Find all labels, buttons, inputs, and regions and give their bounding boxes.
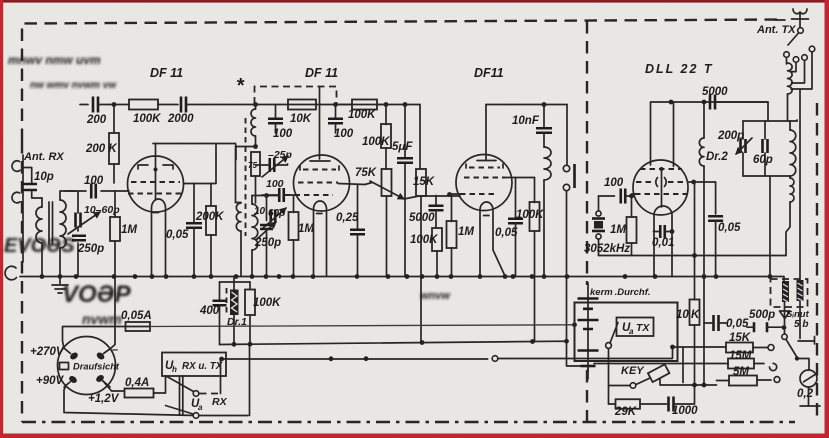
label 0,01 [652, 237, 674, 249]
tube V2 envelope [294, 155, 350, 211]
label Dr.2 [706, 151, 728, 163]
antenna terminal hook upper [12, 161, 20, 172]
capacitor 100 b plates [328, 105, 343, 134]
ant TX switch contact A [798, 28, 804, 34]
contact Ua upper [193, 391, 199, 397]
svg-text:0,05: 0,05 [718, 222, 741, 234]
line C [222, 348, 673, 362]
wire V1 anode to top [153, 144, 236, 160]
label DF 11 first tube [150, 66, 183, 80]
label DF 11 second tube [305, 66, 338, 80]
feedthrough capacitor stack [578, 283, 599, 372]
tank cap 60p [763, 121, 768, 176]
label 0,05A [121, 310, 152, 322]
antenna lower hook [5, 266, 16, 280]
svg-text:DF 11: DF 11 [305, 66, 338, 80]
wire socket to fuse 0,05A [63, 327, 126, 349]
ant TX contact B [784, 52, 790, 58]
label DF11 third tube [474, 66, 504, 80]
resistor 15K [416, 169, 426, 342]
tank top wire [743, 120, 797, 122]
label 10K [290, 113, 312, 125]
svg-text:5000: 5000 [702, 86, 728, 98]
node bar dots 2 [702, 383, 707, 388]
wire trimmers [77, 191, 79, 277]
svg-text:0,01: 0,01 [652, 237, 674, 249]
socket pin bottom-left [64, 375, 78, 387]
trimmer cap 10-60p plates [76, 213, 81, 228]
svg-text:0,25: 0,25 [336, 212, 359, 224]
svg-text:0,2: 0,2 [797, 388, 814, 400]
label 0,4A [125, 377, 149, 389]
wire 15M lead [594, 363, 728, 365]
capacitor 100 grid1 plates [65, 184, 129, 199]
resistor 29K [609, 399, 641, 409]
wire TX contact down [608, 349, 610, 386]
wire primary top [41, 198, 43, 277]
ground bus wire [20, 276, 770, 278]
contact 15M [770, 363, 777, 370]
svg-text:100: 100 [273, 128, 293, 140]
wire top row corner down [419, 105, 421, 170]
tube V1 top cap wire [155, 144, 157, 168]
wire key left [609, 386, 631, 405]
svg-text:400: 400 [199, 305, 220, 317]
box Ua TX [617, 318, 654, 337]
tube V4 grid1 dashes [640, 167, 682, 171]
phone jack sleeve bar [573, 164, 576, 188]
ant TX tap wires [787, 52, 813, 89]
tube V3 grid2 dashes [464, 177, 505, 179]
svg-text:100K: 100K [362, 136, 390, 148]
wire secondary to grid cap [252, 195, 279, 197]
wire 15K lead [673, 346, 727, 348]
dashed box around 10K [255, 87, 337, 105]
wire Uh verticals [180, 376, 183, 415]
wire 5M right [757, 379, 771, 381]
choke Dr.2 [699, 102, 704, 385]
meter circle [800, 370, 817, 387]
capacitor 1000 [669, 397, 674, 412]
label 1000 [672, 405, 698, 417]
trimmer 10-60p arrow [68, 212, 100, 234]
svg-text:5μF: 5μF [392, 141, 413, 153]
box Uh RX u. TX [162, 353, 226, 377]
label +1,2V [88, 393, 120, 405]
wire bar 5a down arrow [780, 302, 791, 328]
tube V2 filament minus [317, 213, 323, 215]
label 5000 coupling [409, 212, 435, 224]
resistor 1M grid3 [447, 195, 457, 277]
label 100K stage3 [516, 209, 544, 221]
label Draufsicht [73, 362, 120, 372]
label 0,2 [797, 388, 814, 400]
tube V1 grid3 dashes [128, 193, 183, 195]
choke Dr.1 core dash [226, 288, 228, 316]
connector bar 5b [797, 280, 804, 301]
svg-text:15K: 15K [729, 332, 751, 344]
svg-text:10K: 10K [290, 113, 312, 125]
tube V1 envelope [128, 156, 184, 212]
capacitor 10p plates [23, 184, 38, 190]
resistor 100K stage1 [129, 100, 158, 110]
svg-text:1M: 1M [610, 224, 626, 236]
crystal 3052kHz [592, 196, 605, 256]
capacitor 0,05 stage3 [508, 178, 523, 277]
wire Dr1 bracket [220, 277, 251, 283]
wire minus pin up [111, 277, 116, 349]
coupling coil ant [786, 178, 794, 256]
input transformer core [49, 202, 53, 244]
node main HT dot [112, 102, 117, 107]
resistor 1M xtal [627, 196, 637, 256]
tube V1 filament minus [153, 212, 159, 214]
wire fuse 0,4A right [154, 376, 166, 393]
key lower contact bar [660, 379, 717, 386]
trimmer -25p arrow [262, 156, 288, 177]
tube V4 filament dome [654, 206, 672, 230]
wire coil3 to bus [543, 180, 545, 277]
tube V4 grid axis [661, 169, 663, 207]
node 15K feed [670, 345, 675, 350]
contact Ua lower [193, 413, 199, 419]
svg-text:RX: RX [212, 396, 228, 408]
tank bottom wire [743, 176, 790, 277]
socket pin top-left [65, 349, 80, 361]
tube V1 anode bracket [138, 165, 173, 169]
svg-text:0,05: 0,05 [726, 318, 749, 330]
label 5uF [392, 141, 413, 153]
socket key notch [60, 363, 69, 370]
label 100 grid1 [84, 175, 104, 187]
svg-text:Ant. RX: Ant. RX [23, 151, 64, 163]
capacitor 400 [213, 282, 227, 345]
label 100K grid3 [410, 234, 438, 246]
wire V1 grid chain right [184, 144, 217, 184]
wire V2 g3 to cap 100c [284, 194, 285, 196]
resistor 10K [288, 100, 316, 110]
contact 5M [774, 377, 780, 383]
svg-text:a: a [198, 403, 203, 412]
resistor 5M [729, 376, 757, 386]
selector arm [786, 339, 799, 360]
wire x250 drop [249, 344, 251, 415]
svg-text:5000: 5000 [409, 212, 435, 224]
switch TX arm [610, 323, 618, 344]
wire top row mid [256, 104, 336, 106]
capacitor 0,05 dll [708, 216, 723, 276]
capacitor 5000 coupling [429, 196, 444, 229]
phone jack bottom contact [563, 184, 569, 341]
svg-text:10: 10 [254, 206, 266, 217]
capacitor 0,01 [654, 225, 675, 238]
svg-text:200p: 200p [717, 130, 744, 142]
connector dashed box [771, 279, 808, 307]
label 15M [729, 350, 752, 362]
wire antenna vertical [23, 155, 32, 262]
variable cap 250p b [260, 196, 273, 277]
tube V3 grid1 dashes [466, 164, 503, 168]
svg-text:5M: 5M [733, 366, 749, 378]
node TX dot1 [669, 100, 707, 105]
svg-text:1M: 1M [458, 226, 474, 238]
trimmer 60p plates [271, 210, 276, 223]
resistor 1M stage2 [289, 196, 299, 277]
label 200 [86, 114, 107, 126]
svg-text:500p: 500p [749, 309, 775, 321]
wire sel to meter [797, 359, 809, 371]
ground symbol below bus [52, 277, 68, 294]
label -25p [268, 149, 293, 161]
label 5M [733, 366, 749, 378]
wire v 683 [682, 347, 684, 383]
trimmer -25p plates [270, 158, 275, 172]
label Sinut 5b [786, 309, 810, 330]
wire top row left [80, 104, 88, 106]
label 29K [614, 406, 637, 418]
tube V1 filament dome [152, 199, 166, 276]
ant TX contact E [809, 46, 815, 52]
transformer T2 primary coil [236, 203, 242, 277]
capacitor 2000 plates [181, 97, 186, 113]
label KEY [621, 365, 645, 377]
node 10K right [333, 102, 338, 107]
capacitor 0,05 tx [704, 315, 727, 331]
trimmer 250p b arrow [256, 222, 276, 240]
wire 100K to 2000 [158, 104, 178, 106]
contact 15K [768, 345, 774, 351]
tube V3 grid3 dashes [460, 193, 497, 195]
wire 5M lead [717, 380, 730, 382]
potentiometer 75K arrow [370, 181, 404, 199]
resistor 15M [728, 359, 754, 369]
label 200 K [85, 143, 117, 155]
oscillator coupling coil [251, 105, 256, 147]
resistor 75 [248, 152, 260, 203]
label 5000 tx [702, 86, 728, 98]
wire V3 anode top row [486, 104, 567, 106]
tube V2 grid1 dashes [300, 166, 339, 170]
tube V4 filament legs [654, 230, 672, 277]
label minus pin [112, 344, 118, 356]
svg-text:2000: 2000 [167, 113, 194, 125]
label 75K [355, 167, 377, 179]
transformer T2 core dashes [245, 118, 247, 236]
input transformer primary coil [36, 207, 42, 243]
label 10nF [512, 115, 540, 127]
label DLL 22 T [645, 62, 714, 76]
resistor 15K tx [726, 343, 753, 353]
svg-text:29K: 29K [614, 406, 637, 418]
wire bar 5b up [799, 90, 801, 280]
node 10nF top [542, 102, 547, 107]
label 1M xtal [610, 224, 626, 236]
svg-text:10nF: 10nF [512, 115, 540, 127]
svg-text:+270V: +270V [30, 346, 65, 358]
svg-text:nw wmv nvwm vw: nw wmv nvwm vw [30, 80, 117, 91]
label 0,25 [336, 212, 359, 224]
wire Uh box to Ua contact [166, 376, 194, 392]
svg-text:+90V: +90V [36, 375, 65, 387]
dashed border right edge [816, 103, 818, 421]
svg-text:15K: 15K [413, 176, 435, 188]
capacitor 100 a plates [268, 105, 283, 134]
svg-text:100: 100 [266, 178, 284, 190]
label 100 xtal [604, 177, 624, 189]
svg-text:Dr.2: Dr.2 [706, 151, 728, 163]
switch TX contact [606, 343, 612, 349]
socket pin bottom-right [95, 374, 110, 387]
tube V4 envelope [633, 160, 688, 215]
svg-text:+1,2V: +1,2V [88, 393, 120, 405]
label 3052kHz [584, 243, 630, 255]
label 0,05 tx [726, 318, 749, 330]
wire xtal bottom rail [599, 255, 787, 257]
svg-text:200: 200 [86, 114, 107, 126]
variable cap 250p plates [72, 236, 86, 241]
wire socket bottom loop [64, 385, 248, 416]
resistor 100K anode2 horizontal [337, 100, 387, 110]
wire 1000 right [674, 386, 695, 405]
wire 200 to 100K [98, 104, 129, 106]
label 15K [413, 176, 435, 188]
big relay box [575, 303, 678, 362]
node osc bottom [253, 144, 258, 149]
svg-text:100: 100 [334, 128, 354, 140]
label 100K top row [133, 113, 161, 125]
wire 15M right [754, 363, 764, 365]
svg-text:0,05: 0,05 [166, 229, 189, 241]
wire V2 g2 right [338, 183, 372, 185]
tank variable cap 200p [736, 121, 752, 176]
label kerm Durchf [590, 287, 651, 298]
svg-text:*: * [236, 75, 245, 97]
label Dr.1 [227, 316, 247, 328]
svg-text:TX: TX [636, 322, 650, 334]
label 1M grid3 [458, 226, 474, 238]
svg-text:1000: 1000 [672, 405, 698, 417]
key lever [636, 364, 669, 384]
svg-text:100: 100 [84, 175, 104, 187]
capacitor 5uF [397, 105, 413, 277]
wire 2000 to osc section [186, 104, 256, 106]
resistor 10 K tx [690, 182, 700, 385]
node bar dots [692, 383, 697, 388]
node 100K vert top [384, 102, 389, 107]
wire 15K right [753, 347, 767, 349]
label Ant. TX [756, 24, 796, 36]
wire 10p to primary [32, 190, 42, 198]
wire -25p [256, 164, 288, 165]
bleed-through ghost text [4, 53, 451, 327]
svg-text:Ant. TX: Ant. TX [756, 24, 796, 36]
label 60p [753, 154, 773, 166]
capacitor 0,05 stage1 [186, 184, 202, 277]
tube V2 anode wire [310, 87, 330, 162]
svg-text:200K: 200K [195, 211, 224, 223]
label 100 a [273, 128, 293, 140]
node DLL grid left [629, 194, 634, 199]
label 100K vertical [362, 136, 390, 148]
label 10 K tx [676, 309, 700, 321]
line A heater [150, 322, 577, 327]
feedthrough bottom tee [581, 366, 596, 379]
wire V4 grid3 left [632, 194, 636, 196]
potentiometer 75K box [382, 169, 392, 277]
label 100K dr1 [253, 297, 281, 309]
ant TX contact D [802, 55, 808, 61]
label +90V [36, 375, 65, 387]
ant TX coil [788, 63, 793, 121]
label 100 c [266, 178, 284, 190]
svg-text:60p: 60p [268, 208, 285, 219]
label 10-60p [84, 204, 120, 216]
line B [220, 341, 581, 366]
label 200p [717, 130, 744, 142]
wire 29K to 1000 [640, 403, 667, 405]
wire meter down [800, 387, 820, 406]
svg-text:DLL 22 T: DLL 22 T [645, 62, 714, 76]
svg-text:75K: 75K [355, 167, 377, 179]
label 10p [34, 171, 54, 183]
line C dots [219, 356, 368, 361]
resistor 100K grid3 [432, 228, 442, 277]
label 200K anode [195, 211, 224, 223]
wire coupling top [796, 120, 798, 121]
label 500p [749, 309, 775, 321]
socket pin top-right [95, 349, 110, 361]
label 100 b [334, 128, 354, 140]
tube V3 envelope [456, 155, 512, 211]
tube V4 grid2 dashes [636, 178, 688, 187]
svg-text:VOƏP: VOƏP [62, 281, 132, 308]
wire bus to bar 5a [770, 277, 784, 282]
node 500p junction [782, 325, 787, 330]
svg-text:100K: 100K [348, 109, 376, 121]
oscillator coil stage3 [544, 147, 551, 180]
svg-text:100K: 100K [253, 297, 281, 309]
antenna terminal hook lower [12, 192, 20, 203]
tube V4 grid3 dashes [635, 193, 687, 195]
tube V1 grid wire [155, 170, 157, 200]
svg-text:kerm .Durchf.: kerm .Durchf. [590, 287, 651, 298]
capacitor 100 xtal [599, 189, 632, 204]
switch blade Ua [166, 406, 194, 415]
label 15K tx [729, 332, 751, 344]
label 2000 [167, 113, 194, 125]
transformer T2 secondary coil [252, 196, 258, 277]
line B dots [232, 339, 569, 347]
asterisk mark [236, 75, 245, 97]
capacitor 100 c plates [262, 188, 294, 202]
svg-text:0,05A: 0,05A [121, 310, 152, 322]
label 0,05 stage1 [166, 229, 189, 241]
choke Dr.1 body [230, 282, 239, 344]
node secondary top [264, 193, 269, 198]
label 250p [77, 243, 104, 255]
wire 5000 right [715, 102, 768, 121]
capacitor 0,25 [350, 185, 365, 277]
tube V1 grid2 dashes [131, 168, 180, 183]
contact sel circle [782, 330, 787, 339]
tube socket circle [58, 337, 116, 395]
svg-text:KEY: KEY [621, 365, 645, 377]
input transformer secondary coil [60, 200, 66, 248]
label 0,05 dll [718, 222, 741, 234]
node grid3 junction [447, 192, 452, 197]
ant TX contact C [793, 57, 799, 63]
wire pin to fuse 0,4A [103, 381, 125, 391]
